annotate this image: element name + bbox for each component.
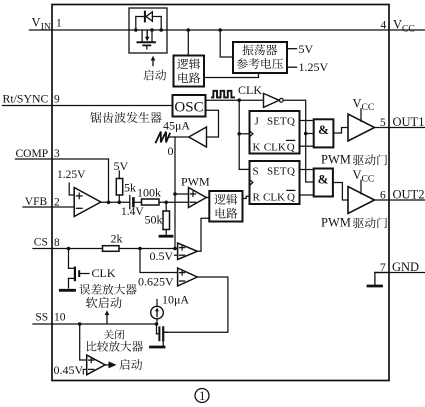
svg-text:CS: CS	[34, 237, 48, 249]
wire logic1 to ref box	[204, 73, 259, 78]
node: 5k junction	[118, 201, 122, 205]
svg-text:J: J	[255, 115, 260, 127]
0.5V comparator	[178, 243, 198, 260]
internal ground at GND pin	[368, 273, 389, 287]
shutdown MOSFET Q3	[157, 324, 169, 345]
svg-text:PWM: PWM	[321, 153, 351, 167]
pin 6 OUT2 wire	[375, 199, 425, 201]
svg-text:100k: 100k	[137, 186, 161, 200]
svg-text:1: 1	[199, 389, 205, 403]
wire OSC to ramp buffer	[206, 110, 219, 137]
pin 8 CS wire	[33, 248, 178, 250]
logic circuit box 2	[209, 191, 242, 222]
svg-text:5k: 5k	[124, 181, 136, 195]
wire SS to 0.45V comparator	[80, 324, 87, 360]
node: ramp to PWM+	[173, 192, 177, 196]
SR flip-flop FF2	[250, 161, 300, 204]
ground under Q2	[60, 289, 74, 292]
pin 3 COMP wire	[16, 158, 109, 160]
wire CLK to SR S input	[239, 168, 249, 170]
ramp buffer amp	[189, 127, 207, 147]
resistor 100k	[142, 199, 160, 205]
pin 1 VIN label	[32, 16, 63, 33]
svg-text:1.4V: 1.4V	[121, 206, 144, 218]
svg-text:&: &	[318, 122, 329, 137]
wire rail to oscillator/ref box	[220, 30, 233, 57]
wire logic2 to SR R input	[243, 196, 250, 198]
svg-text:3: 3	[54, 148, 60, 160]
IC outline box U1	[52, 5, 389, 381]
svg-text:0.5V: 0.5V	[150, 249, 174, 263]
svg-text:IN: IN	[41, 22, 51, 32]
svg-text:Q: Q	[287, 141, 295, 153]
pin 2 VFB label	[25, 196, 60, 208]
figure number circle 1	[195, 389, 209, 404]
svg-text:8: 8	[54, 237, 60, 249]
pin 10 SS wire	[33, 323, 157, 325]
wire EA output chain	[101, 201, 189, 203]
svg-text:CLK: CLK	[92, 266, 116, 280]
startup bypass diode D1	[136, 12, 161, 30]
label: qidong (startup)	[143, 70, 166, 81]
wire into PWM + input	[175, 193, 189, 195]
logic circuit box 1	[174, 56, 205, 87]
svg-text:Q: Q	[287, 115, 295, 127]
svg-text:COMP: COMP	[16, 148, 49, 160]
label: soft start	[86, 297, 122, 308]
wire 0.5V comparator to logic2	[197, 218, 209, 251]
svg-text:PWM: PWM	[181, 175, 210, 189]
svg-text:CC: CC	[402, 25, 415, 35]
PWM comparator	[189, 188, 207, 208]
svg-text:50k: 50k	[145, 213, 163, 227]
svg-text:OSC: OSC	[174, 100, 203, 116]
sawtooth waveform symbol	[156, 132, 170, 143]
pin 2 VFB wire	[23, 206, 74, 208]
wire CLK to JK clock input	[239, 133, 249, 135]
0.45V comparator	[87, 355, 105, 375]
wire FF2 Q to AND2	[300, 169, 314, 171]
ground under Q3	[151, 346, 165, 349]
AND gate 2	[314, 169, 333, 197]
VIN-VCC top rail wire	[52, 29, 389, 31]
svg-text:0: 0	[168, 144, 174, 158]
node: rail junction dots in startup cell	[134, 28, 163, 32]
wire FF2 Qbar to AND2	[300, 194, 314, 196]
label 0.45V	[54, 363, 87, 377]
svg-text:CC: CC	[362, 175, 375, 185]
wire CS to 0.625V comparator	[140, 249, 178, 273]
node: inverted CLK to AND1	[304, 132, 308, 136]
label: sawtooth generator	[90, 112, 161, 123]
resistor 2k	[103, 246, 120, 252]
AND gate 1	[314, 119, 334, 147]
node: CS junction a	[67, 247, 71, 251]
svg-text:OUT1: OUT1	[393, 115, 425, 129]
svg-text:GND: GND	[392, 260, 419, 274]
CLK square waveform	[212, 91, 234, 98]
label 0.5V	[150, 249, 178, 263]
svg-text:VFB: VFB	[25, 196, 48, 208]
svg-text:CLK: CLK	[263, 191, 285, 203]
svg-text:S: S	[253, 165, 259, 177]
wire 0.625V comparator to shutdown MOSFET	[163, 277, 228, 332]
svg-text:V: V	[353, 168, 362, 182]
svg-text:CLK: CLK	[264, 141, 286, 153]
0.625V comparator	[178, 268, 198, 286]
svg-text:Q: Q	[287, 165, 295, 177]
wire rail to logic1	[187, 30, 189, 56]
pin 5 OUT1 label	[380, 115, 424, 129]
PWM driver gate 1	[348, 114, 375, 141]
svg-text:SET: SET	[267, 115, 287, 127]
svg-text:5: 5	[380, 117, 386, 129]
CLK discharge MOSFET Q2	[69, 249, 90, 289]
svg-text:R: R	[253, 191, 261, 203]
svg-text:K: K	[253, 141, 261, 153]
svg-text:10μA: 10μA	[162, 293, 189, 307]
label: comparator amplifier	[87, 341, 143, 352]
svg-text:5V: 5V	[299, 42, 314, 56]
1.25V output stub	[287, 60, 329, 74]
node: CLK to JK clock	[237, 132, 241, 136]
oscillator reference box	[233, 42, 287, 73]
svg-text:9: 9	[54, 93, 60, 105]
pin 4 VCC label	[381, 20, 387, 32]
wire COMP down to EA output	[108, 159, 110, 202]
pin 7 GND wire	[375, 272, 425, 274]
FF1 clock wedge	[250, 131, 253, 137]
pin 10 SS label	[35, 312, 65, 324]
battery 1.4V offset	[130, 196, 134, 209]
node: CS junction b	[138, 247, 142, 251]
node: divider junction	[164, 201, 168, 205]
startup output arrow	[105, 361, 116, 368]
PWM driver gate 2	[348, 187, 375, 214]
error amplifier EA	[74, 188, 101, 217]
label: shutdown	[104, 330, 124, 340]
wire inverter output rail	[283, 100, 314, 182]
VCC label driver2	[353, 168, 375, 194]
pin 8 CS label	[34, 237, 60, 249]
svg-text:2k: 2k	[111, 232, 123, 246]
startup MOSFET Q1	[138, 30, 155, 49]
svg-text:1.25V: 1.25V	[299, 60, 329, 74]
pin 6 OUT2 label	[380, 188, 424, 202]
svg-text:5V: 5V	[114, 159, 129, 173]
5V output stub	[287, 42, 314, 56]
svg-text:&: &	[318, 172, 329, 187]
soft start arrow	[105, 310, 110, 323]
pin 4 VCC wire	[389, 29, 425, 31]
svg-text:PWM: PWM	[321, 216, 351, 230]
svg-text:1: 1	[56, 18, 62, 30]
svg-text:SET: SET	[267, 165, 287, 177]
JK flip-flop FF1	[250, 111, 300, 154]
VCC label driver1	[353, 97, 375, 122]
startup arrow	[151, 56, 156, 66]
startup block box	[129, 8, 167, 53]
wire PWM comparator to logic2	[206, 197, 209, 199]
label: error amplifier	[79, 284, 136, 295]
ground under 50k	[160, 235, 172, 238]
label: driver gate 1	[353, 154, 387, 165]
svg-text:10: 10	[54, 312, 66, 324]
node: COMP junction	[107, 201, 111, 205]
svg-text:V: V	[353, 97, 362, 111]
node: CLK junction	[237, 98, 241, 102]
label: driver gate 2	[353, 217, 387, 228]
current source 10uA	[151, 300, 164, 325]
svg-text:V: V	[393, 18, 402, 32]
svg-text:45μA: 45μA	[163, 119, 190, 133]
node: SS junction a	[78, 322, 82, 326]
svg-text:CC: CC	[362, 103, 375, 113]
wire 1.25V ref to EA + input	[69, 183, 74, 195]
svg-text:0.625V: 0.625V	[138, 274, 174, 288]
label: startup (bottom)	[119, 359, 142, 370]
pin 7 GND label	[380, 260, 419, 274]
resistor 50k	[163, 202, 170, 235]
pin 9 Rt/SYNC label	[3, 92, 61, 106]
svg-text:CLK: CLK	[238, 83, 262, 97]
wire ramp to PWM + and CS	[174, 137, 176, 249]
svg-text:Q: Q	[287, 191, 295, 203]
svg-text:SS: SS	[35, 312, 48, 324]
node: CS ramp junction	[173, 247, 177, 251]
pin 3 COMP label	[16, 148, 61, 160]
OSC box	[173, 95, 206, 117]
pin 1 VIN wire	[30, 29, 53, 31]
wire AND2 output to driver2	[333, 183, 348, 201]
svg-text:0.45V: 0.45V	[54, 363, 84, 377]
svg-text:OUT2: OUT2	[393, 188, 425, 202]
wire FF1 Q to AND1	[300, 120, 314, 122]
svg-text:2: 2	[54, 197, 60, 209]
pin 5 OUT1 wire	[375, 127, 425, 129]
wire buffer output to ramp node	[170, 136, 189, 138]
wire FF1 Qbar to AND1	[300, 145, 314, 147]
CLK wire from OSC	[206, 99, 264, 101]
wire AND1 output to driver1	[333, 128, 348, 134]
svg-text:1.25V: 1.25V	[57, 169, 86, 181]
wire CLK rail down to flip-flops	[238, 100, 240, 169]
svg-text:Rt/SYNC: Rt/SYNC	[3, 92, 49, 106]
resistor 5k	[116, 171, 122, 202]
wire inverted CLK to AND1	[306, 133, 314, 135]
FF2 clock wedge	[250, 180, 253, 186]
svg-text:V: V	[32, 16, 41, 30]
svg-text:6: 6	[380, 190, 386, 202]
node: rail to oscillator ref	[218, 28, 222, 32]
pin 9 Rt/SYNC wire	[3, 105, 173, 107]
inverter U2	[264, 93, 284, 107]
node: SS junction b	[155, 322, 159, 326]
node: rail to logic1	[187, 28, 191, 32]
